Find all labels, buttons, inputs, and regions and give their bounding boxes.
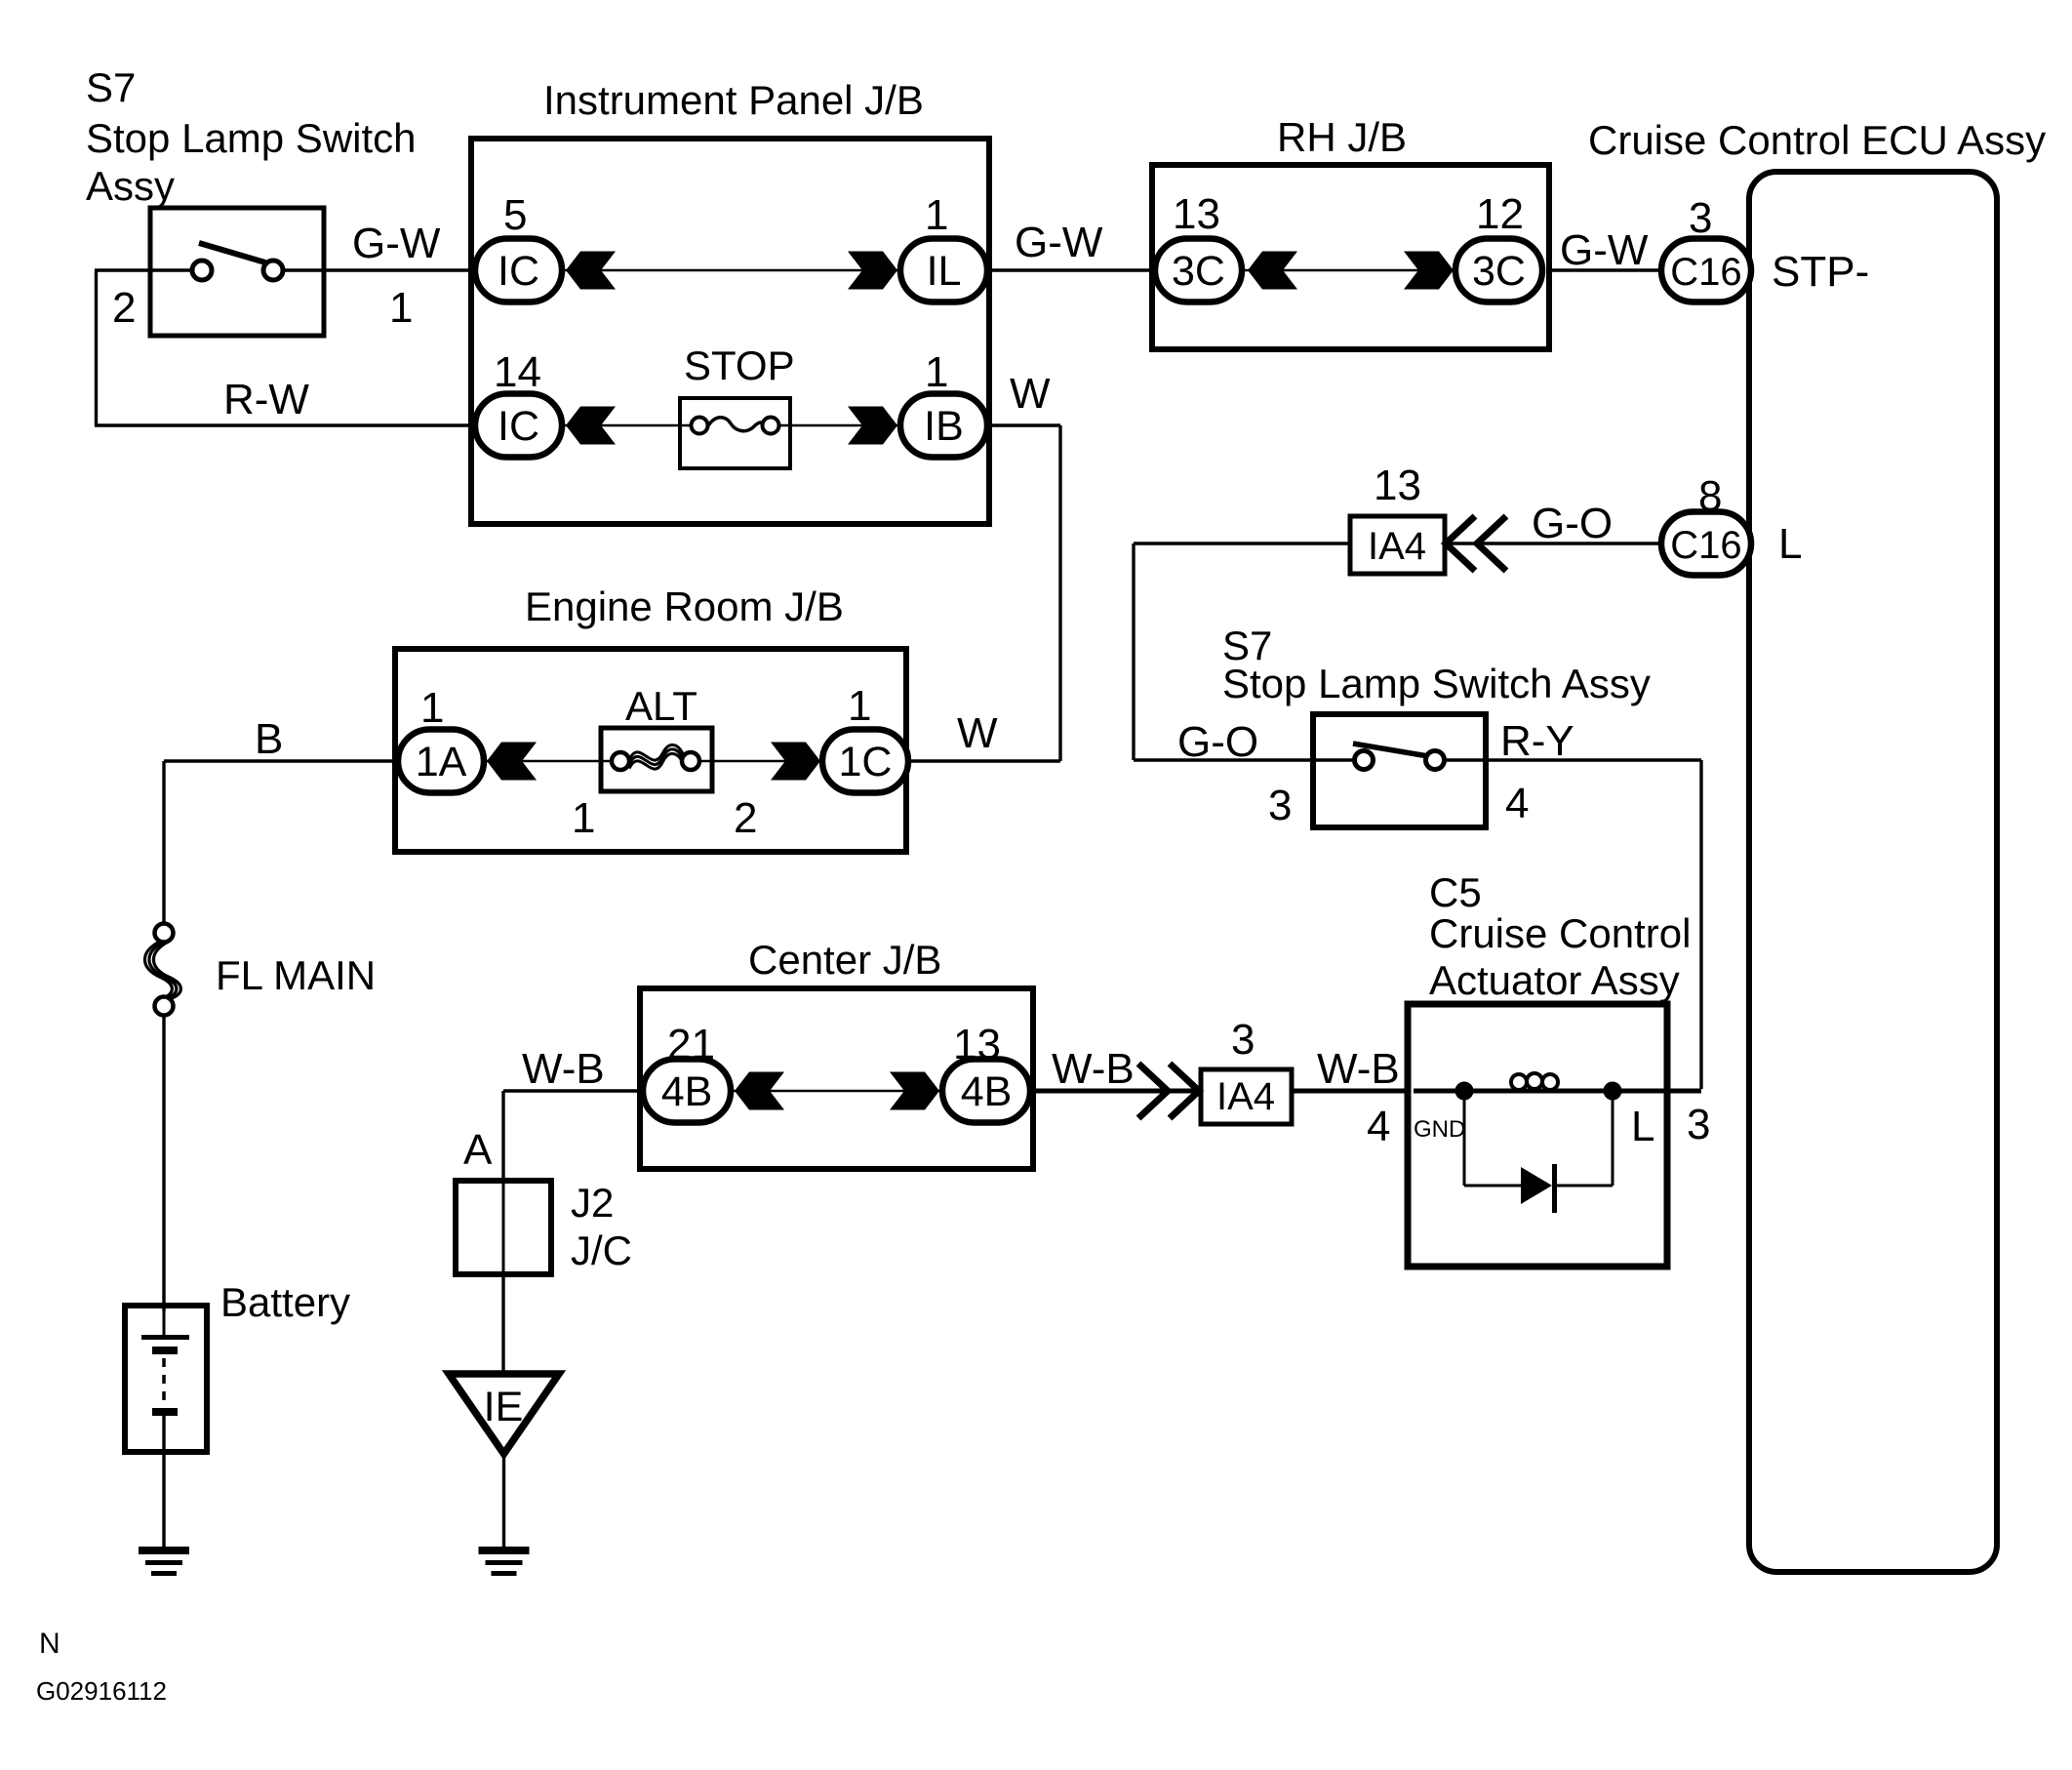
- svg-text:GND: GND: [1414, 1116, 1465, 1143]
- component box C5 cruise control actuator assy: [1408, 1004, 1667, 1267]
- connector 1A pin 1: [398, 730, 484, 793]
- FL MAIN fusible link element: [144, 942, 172, 999]
- svg-text:IB: IB: [924, 403, 964, 450]
- switch 2 left contact: [1355, 751, 1374, 770]
- connector box IA4 pin 3: [1201, 1069, 1292, 1124]
- wire 3C to 3C inside RH J/B: [1243, 269, 1457, 272]
- arrow right before 3C12: [1404, 252, 1454, 290]
- svg-text:14: 14: [494, 348, 541, 396]
- svg-text:13: 13: [953, 1021, 1001, 1068]
- battery negative plate bottom: [152, 1408, 178, 1416]
- arrow left after 3C13: [1248, 252, 1297, 290]
- svg-text:RH J/B: RH J/B: [1277, 114, 1407, 160]
- wire battery to ground: [162, 1416, 165, 1553]
- STOP fuse right terminal: [763, 418, 779, 434]
- svg-text:W-B: W-B: [1317, 1045, 1400, 1093]
- junction block Instrument Panel J/B: [471, 139, 989, 524]
- wire 1A to ALT fuse: [482, 760, 618, 763]
- wire battery vertical top: [162, 761, 165, 934]
- svg-text:L: L: [1631, 1103, 1654, 1150]
- wire inside actuator GND to L to pin 3: [1414, 1089, 1701, 1094]
- svg-text:12: 12: [1476, 190, 1524, 238]
- ECU box Cruise Control ECU Assy: [1749, 172, 1997, 1572]
- connector IB pin 1: [900, 394, 987, 458]
- wire W horizontal to 1C: [906, 759, 1060, 762]
- wire R-Y from switch pin 4: [1434, 758, 1701, 761]
- svg-text:2: 2: [734, 794, 757, 842]
- inductor coil: [1511, 1074, 1527, 1090]
- svg-text:G-W: G-W: [1015, 219, 1103, 266]
- wire G-W from stop lamp switch S7 pin 1 to IC: [272, 268, 475, 271]
- svg-text:IA4: IA4: [1216, 1075, 1275, 1118]
- switch 1 right contact: [263, 261, 283, 280]
- wire G-O vertical drop: [1132, 543, 1135, 760]
- svg-text:Cruise Control ECU Assy: Cruise Control ECU Assy: [1588, 117, 2046, 163]
- wire W-B vertical to J2: [501, 1091, 504, 1183]
- svg-text:Stop Lamp Switch Assy: Stop Lamp Switch Assy: [1222, 661, 1651, 706]
- connector IC pin 5: [475, 239, 562, 302]
- wire G-W instrument panel to RH J/B: [987, 268, 1157, 271]
- arrow right before IB: [848, 407, 897, 445]
- svg-text:C16: C16: [1670, 251, 1741, 294]
- wire battery vertical mid: [162, 1005, 165, 1311]
- svg-text:FL MAIN: FL MAIN: [216, 952, 376, 998]
- connector 4B pin 21: [643, 1060, 731, 1123]
- connector IC pin 14: [475, 394, 562, 458]
- wire IA4 to left corner: [1134, 542, 1352, 544]
- svg-text:C5: C5: [1429, 869, 1482, 915]
- svg-text:1: 1: [848, 682, 871, 730]
- arrow left after IC14: [566, 407, 616, 445]
- connector 1C pin 1: [822, 730, 908, 793]
- svg-text:STP-: STP-: [1772, 248, 1869, 296]
- svg-text:S7: S7: [86, 64, 136, 110]
- wire S7 pin 2 to left drop: [95, 268, 203, 271]
- wire diode bottom left: [1464, 1185, 1522, 1187]
- wire 4B to 4B inside center J/B: [730, 1090, 944, 1093]
- battery positive plate long: [141, 1335, 189, 1340]
- wire W-B IA4 to actuator: [1290, 1089, 1410, 1094]
- wire IE apex to ground: [502, 1452, 505, 1553]
- connector box IA4 pin 13: [1350, 516, 1445, 574]
- connector 3C pin 12: [1455, 239, 1542, 302]
- wire ALT fuse to 1C: [694, 760, 824, 763]
- svg-text:G-W: G-W: [352, 220, 441, 267]
- junction block Engine Room J/B: [395, 649, 906, 852]
- svg-text:1C: 1C: [839, 739, 893, 785]
- wire W vertical: [1058, 425, 1061, 761]
- wire diode bottom right: [1556, 1185, 1613, 1187]
- arrow right before 4B13: [890, 1072, 939, 1110]
- wire vertical pin2 drop: [95, 270, 98, 425]
- fusible link box ALT: [601, 728, 712, 791]
- svg-text:1: 1: [420, 684, 444, 732]
- svg-text:G-W: G-W: [1560, 226, 1649, 274]
- connector 4B pin 13: [942, 1060, 1030, 1123]
- junction connector J2 J/C: [456, 1181, 551, 1274]
- arrow left after IC5: [566, 252, 616, 290]
- wire R-Y vertical drop: [1699, 760, 1702, 1089]
- connector C16 pin 8: [1661, 512, 1751, 576]
- svg-text:13: 13: [1374, 462, 1421, 509]
- wire W from IB to corner: [987, 423, 1060, 426]
- svg-text:4B: 4B: [961, 1068, 1013, 1115]
- connector IL pin 1: [900, 239, 987, 302]
- STOP fuse left terminal: [692, 418, 708, 434]
- svg-text:IC: IC: [498, 248, 539, 295]
- svg-text:3: 3: [1231, 1016, 1255, 1064]
- svg-text:3C: 3C: [1472, 248, 1526, 295]
- arrow right before IL: [848, 252, 897, 290]
- svg-text:N: N: [39, 1628, 60, 1660]
- switch 1 lever: [199, 243, 265, 262]
- junction block RH J/B: [1152, 165, 1549, 349]
- svg-text:ALT: ALT: [625, 683, 697, 729]
- wire J2 to IE triangle: [501, 1272, 504, 1376]
- svg-text:IL: IL: [927, 248, 962, 295]
- ALT fuse right terminal: [682, 752, 699, 770]
- svg-text:4: 4: [1367, 1103, 1390, 1150]
- wire L stub down: [1612, 1091, 1614, 1186]
- wire GND stub down: [1463, 1091, 1466, 1186]
- svg-text:A: A: [463, 1126, 493, 1174]
- svg-text:Stop Lamp Switch: Stop Lamp Switch: [86, 115, 417, 161]
- svg-text:Instrument Panel J/B: Instrument Panel J/B: [543, 77, 924, 123]
- svg-text:5: 5: [503, 191, 527, 239]
- svg-text:R-W: R-W: [223, 376, 309, 423]
- svg-text:IA4: IA4: [1368, 525, 1426, 568]
- svg-text:1: 1: [925, 191, 948, 239]
- wire IC to IL inside instrument panel J/B: [561, 269, 902, 272]
- junction dot L: [1604, 1082, 1621, 1100]
- svg-text:W-B: W-B: [1052, 1045, 1135, 1093]
- ALT fuse left terminal: [612, 752, 629, 770]
- svg-text:21: 21: [667, 1021, 715, 1068]
- switch 2 right contact: [1426, 751, 1445, 770]
- svg-text:W-B: W-B: [522, 1045, 605, 1093]
- svg-text:3C: 3C: [1172, 248, 1225, 295]
- svg-text:J2: J2: [571, 1180, 614, 1226]
- svg-text:IE: IE: [484, 1384, 524, 1430]
- wire G-O from C16 pin 8 to IA4: [1443, 542, 1663, 544]
- svg-text:3: 3: [1268, 782, 1292, 829]
- battery negative plate top: [152, 1347, 178, 1354]
- arrow left after 1A: [487, 743, 537, 781]
- junction dot GND: [1455, 1082, 1473, 1100]
- wire IC14 to STOP fuse: [561, 424, 696, 427]
- svg-text:B: B: [255, 715, 283, 763]
- wire B battery to 1A: [164, 759, 400, 762]
- svg-text:IC: IC: [498, 403, 539, 450]
- FL MAIN top terminal: [155, 924, 174, 943]
- svg-text:4: 4: [1505, 780, 1529, 827]
- ALT fusible link element: [629, 744, 683, 760]
- switch 2 lever: [1353, 744, 1428, 756]
- svg-text:4B: 4B: [661, 1068, 713, 1115]
- switch box S7 stop lamp switch assy 2: [1313, 714, 1486, 827]
- svg-text:W: W: [957, 709, 998, 757]
- svg-text:L: L: [1778, 520, 1802, 568]
- svg-text:R-Y: R-Y: [1500, 717, 1574, 765]
- arrow left after 4B21: [735, 1072, 784, 1110]
- wire through J2 junction connector: [502, 1184, 505, 1271]
- svg-text:Battery: Battery: [220, 1279, 350, 1325]
- battery top wire inside: [163, 1308, 166, 1335]
- battery cell dashed separator: [162, 1358, 166, 1405]
- switch box S7 stop lamp switch assy 1: [150, 208, 324, 336]
- svg-text:Center J/B: Center J/B: [748, 937, 941, 983]
- svg-text:Actuator Assy: Actuator Assy: [1429, 957, 1680, 1003]
- svg-text:3: 3: [1689, 194, 1712, 242]
- svg-text:2: 2: [112, 284, 136, 332]
- wire R-W to IC pin 14: [95, 423, 475, 426]
- svg-text:1: 1: [572, 794, 595, 842]
- fuse box STOP: [680, 398, 790, 468]
- svg-text:Engine Room J/B: Engine Room J/B: [525, 583, 844, 629]
- connector 3C pin 13: [1155, 239, 1242, 302]
- STOP fuse element: [707, 418, 763, 431]
- chevron pair pointing right into IA4 pin 3: [1138, 1064, 1199, 1118]
- wire W-B from J2 corner to 4B: [503, 1089, 644, 1092]
- wire G-O to stop lamp switch pin 3: [1134, 758, 1365, 761]
- svg-text:Assy: Assy: [86, 163, 175, 209]
- svg-text:W: W: [1010, 370, 1051, 418]
- svg-text:13: 13: [1173, 190, 1220, 238]
- ground symbol IE: [479, 1550, 530, 1574]
- diode D1: [1521, 1167, 1552, 1204]
- battery box: [125, 1306, 207, 1452]
- svg-text:8: 8: [1698, 472, 1722, 520]
- wire center J/B to IA4 connector: [1030, 1089, 1203, 1094]
- svg-text:1A: 1A: [416, 739, 467, 785]
- svg-text:J/C: J/C: [571, 1227, 632, 1273]
- ground triangle IE: [449, 1374, 559, 1454]
- svg-text:3: 3: [1687, 1101, 1710, 1148]
- svg-text:1: 1: [925, 348, 948, 396]
- FL MAIN bottom terminal: [155, 997, 174, 1016]
- switch 1 left contact: [192, 261, 212, 280]
- ground symbol battery: [139, 1550, 189, 1574]
- arrow right before 1C: [771, 743, 820, 781]
- svg-text:1: 1: [389, 284, 413, 332]
- wire G-W RH J/B to C16 pin 3: [1547, 268, 1663, 271]
- wire STOP fuse to IB: [774, 424, 902, 427]
- svg-text:G-O: G-O: [1532, 500, 1613, 547]
- connector C16 pin 3: [1661, 239, 1751, 302]
- svg-text:G-O: G-O: [1177, 718, 1258, 766]
- svg-text:C16: C16: [1670, 524, 1741, 567]
- svg-text:Cruise Control: Cruise Control: [1429, 910, 1691, 956]
- chevron pair pointing left into IA4 pin 13: [1446, 516, 1506, 571]
- svg-text:STOP: STOP: [684, 342, 795, 388]
- junction block Center J/B: [640, 988, 1033, 1169]
- svg-text:G02916112: G02916112: [36, 1676, 167, 1706]
